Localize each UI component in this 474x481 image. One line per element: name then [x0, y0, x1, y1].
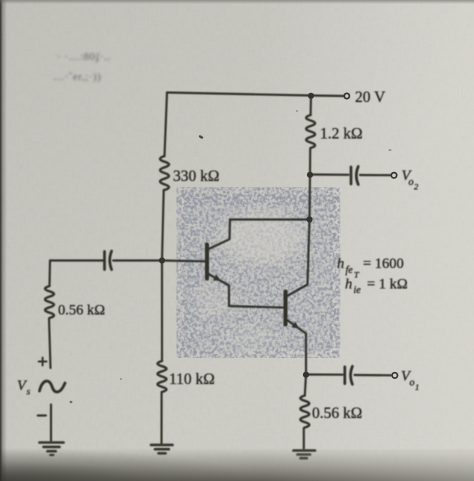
ground right [294, 451, 316, 459]
svg-text:110 kΩ: 110 kΩ [169, 371, 215, 388]
node Vo2 junction [307, 172, 313, 178]
wire to middle ground [160, 392, 162, 444]
svg-text:…·ˇer,;·)): …·ˇer,;·)) [53, 71, 101, 83]
wire source to plus [49, 319, 51, 369]
wire left rail upper [165, 93, 168, 157]
svg-text:330 kΩ: 330 kΩ [173, 168, 219, 185]
svg-text:1.2 kΩ: 1.2 kΩ [320, 126, 363, 143]
resistor 0.56k output [300, 396, 309, 428]
wire left rail mid [162, 190, 164, 261]
svg-text:s: s [27, 388, 31, 398]
capacitor C1 [105, 251, 112, 270]
svg-text:20 V: 20 V [355, 89, 386, 106]
transistor Q2 [286, 285, 308, 375]
wire top rail [167, 93, 344, 97]
node Vo1 junction [303, 372, 309, 378]
svg-text:0.56 kΩ: 0.56 kΩ [58, 303, 105, 319]
svg-text:ie: ie [354, 285, 362, 296]
wire Vo2 branch right [360, 174, 391, 176]
ground middle [151, 445, 173, 453]
svg-text:· ·…:80ʄ·..: · ·…:80ʄ·.. [57, 51, 110, 63]
label Vs [17, 378, 31, 398]
bleedthrough text [53, 51, 110, 83]
wire Q1 emitter to Q2 base [229, 306, 284, 308]
resistor 110k [158, 361, 167, 392]
svg-text:o: o [409, 177, 414, 188]
node supply junction [308, 93, 314, 99]
label hfeT = 1600 [337, 256, 404, 280]
terminal Vo2 [391, 173, 396, 178]
label hie = 1 kohm [345, 277, 408, 297]
wire collector top link [230, 218, 310, 220]
svg-text:fe: fe [346, 265, 354, 276]
wire Vo2 branch left [310, 173, 349, 175]
wire right rail upper [310, 96, 313, 116]
node collector junction [306, 216, 312, 222]
source Vs sine [40, 381, 66, 392]
svg-text:h: h [337, 256, 344, 272]
svg-text:1: 1 [415, 382, 419, 392]
svg-text:= 1 kΩ: = 1 kΩ [367, 277, 408, 293]
svg-text:h: h [345, 277, 352, 293]
wire right rail to Q2 collector [308, 220, 310, 285]
wire emitter to 0.56k [305, 375, 306, 396]
wire right rail to collector node [308, 175, 311, 220]
shaded transistor box [184, 195, 340, 350]
wire input left horizontal [50, 259, 103, 261]
wire source lower vertical [50, 405, 52, 442]
resistor 330k [160, 156, 169, 190]
svg-text:o: o [410, 378, 415, 389]
capacitor C3 [345, 366, 353, 384]
node junction dots [159, 93, 314, 378]
wire left rail lower [161, 261, 163, 362]
svg-text:= 1600: = 1600 [363, 256, 404, 272]
wire input right horizontal [113, 259, 205, 262]
capacitor C2 [351, 167, 358, 185]
ground left [40, 443, 64, 456]
node base junction [159, 257, 165, 263]
wire right rail to Vo2 node [309, 149, 311, 175]
wire Vo1 branch right [355, 374, 392, 376]
resistor 1.2k [306, 115, 315, 148]
wire Vo1 branch left [306, 373, 343, 375]
plus sign [39, 358, 47, 366]
transistor Q1 [207, 220, 230, 307]
ink specks [70, 110, 392, 403]
wire source upper vertical [48, 261, 51, 287]
label Vo1 [401, 369, 419, 393]
minus sign [38, 414, 46, 416]
terminal 20V [344, 93, 349, 98]
label Vo2 [402, 168, 420, 192]
svg-text:0.56 kΩ: 0.56 kΩ [312, 405, 362, 422]
resistor 0.56k source [45, 286, 54, 318]
wire to right ground [303, 428, 305, 449]
terminal Vo1 [392, 373, 397, 378]
